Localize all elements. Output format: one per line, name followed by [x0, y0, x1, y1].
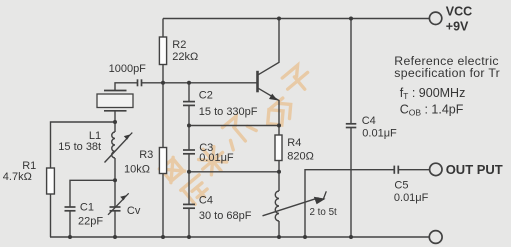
wire C2 to C3 [188, 106, 190, 150]
inductor L1 [58, 130, 132, 163]
svg-text:R2: R2 [172, 39, 186, 51]
svg-text:22pF: 22pF [78, 216, 103, 228]
wire C4 bypass column bottom [350, 128, 352, 238]
capacitor C3 [183, 142, 234, 164]
wire VCC top rail [163, 18, 429, 20]
capacitor C4 (0.01uF bypass) [346, 115, 397, 139]
resistor R2 [159, 37, 198, 65]
svg-text:22kΩ: 22kΩ [172, 51, 198, 63]
VCC terminal [429, 4, 472, 33]
node gnd C1 [68, 235, 72, 239]
wire crystal bottom lead [114, 111, 116, 122]
resistor R1 [3, 160, 55, 194]
svg-text:0.01μF: 0.01μF [394, 192, 429, 204]
note reference specification [394, 54, 500, 117]
wire C3 to C4 [188, 154, 190, 204]
node C3C4/wire [187, 170, 191, 174]
wire R1 top horizontal [51, 122, 116, 168]
node C1/Cv [113, 178, 117, 182]
svg-text:VCC: VCC [446, 4, 472, 18]
node C4/VCC [349, 17, 353, 21]
svg-text:10kΩ: 10kΩ [124, 163, 150, 175]
svg-text:OUT PUT: OUT PUT [446, 162, 503, 177]
ground terminal [429, 231, 442, 244]
wire R2/R3 column [162, 19, 164, 238]
svg-text:C2: C2 [199, 89, 213, 101]
svg-text:specification for Tr: specification for Tr [394, 66, 500, 80]
node emitter/C2C3 [187, 124, 191, 128]
svg-text:0.01μF: 0.01μF [362, 128, 397, 140]
wire Cv bottom lead [114, 211, 116, 237]
svg-text:820Ω: 820Ω [287, 150, 314, 162]
inductor L2 (output coil) [263, 191, 338, 221]
wire coil bottom lead [278, 221, 280, 237]
svg-text:R3: R3 [139, 149, 153, 161]
svg-text:C4: C4 [199, 195, 213, 207]
wire R1 bottom lead [50, 194, 52, 237]
resistor R4 [275, 135, 314, 162]
node gnd C4 [187, 235, 191, 239]
svg-text:+9V: +9V [446, 20, 469, 34]
wire C2 column top [188, 83, 190, 102]
capacitor C1 [65, 202, 104, 228]
wire C4 bottom lead [188, 209, 190, 238]
svg-text:fT : 900MHz: fT : 900MHz [400, 86, 466, 101]
capacitor C2 [183, 89, 258, 118]
capacitor 1000pF [109, 63, 147, 86]
wire R4 to coil [278, 161, 280, 192]
transistor Q1 [258, 71, 278, 101]
variable capacitor Cv [108, 193, 141, 217]
node base/C2 [187, 81, 191, 85]
svg-text:2 to 5t: 2 to 5t [310, 207, 338, 218]
wire emitter lead [258, 88, 279, 125]
wire output tap column [305, 170, 394, 237]
resistor R3 [124, 148, 167, 176]
crystal X1 [97, 91, 133, 111]
wire L1 to Cv [114, 158, 116, 207]
svg-text:C5: C5 [394, 179, 408, 191]
wire R4 top lead [278, 126, 280, 136]
svg-text:0.01μF: 0.01μF [199, 152, 234, 164]
node gnd Cv [113, 235, 117, 239]
capacitor C4 (30 to 68pF) [183, 195, 252, 223]
OUT PUT terminal [430, 162, 503, 177]
wire collector lead [258, 19, 279, 75]
node emitter/R4 [277, 124, 281, 128]
node R4/coil [277, 170, 281, 174]
watermark [159, 63, 314, 205]
wire emitter node horizontal [189, 125, 279, 127]
svg-text:4.7kΩ: 4.7kΩ [3, 171, 32, 183]
svg-text:Cv: Cv [127, 205, 141, 217]
svg-text:30 to 68pF: 30 to 68pF [199, 210, 252, 222]
node gnd tap [303, 235, 307, 239]
wire bottom ground rail [50, 236, 429, 238]
node crystal/L1 [113, 120, 117, 124]
capacitor C5 [394, 166, 429, 205]
wire C1 bottom lead [69, 211, 71, 237]
svg-text:15 to 38t: 15 to 38t [58, 141, 101, 153]
wire crystal to 1000pF [115, 83, 138, 91]
node gnd coil [277, 235, 281, 239]
wire C5 to output terminal [398, 169, 429, 171]
svg-text:15 to 330pF: 15 to 330pF [199, 106, 258, 118]
svg-text:R4: R4 [287, 137, 301, 149]
svg-text:1000pF: 1000pF [109, 63, 147, 75]
wire R4 junction horizontal [189, 171, 279, 173]
svg-text:C1: C1 [80, 202, 94, 214]
svg-text:C4: C4 [362, 115, 376, 127]
wire C4 bypass column top [350, 19, 352, 124]
node gnd C4 bypass [349, 235, 353, 239]
wire L1 column top [114, 122, 116, 132]
node collector/VCC [277, 17, 281, 21]
wire base line (1000pF to base) [142, 82, 257, 84]
wire C1 branch [70, 180, 115, 207]
node gnd R3 [161, 235, 165, 239]
node base/R2 [161, 81, 165, 85]
